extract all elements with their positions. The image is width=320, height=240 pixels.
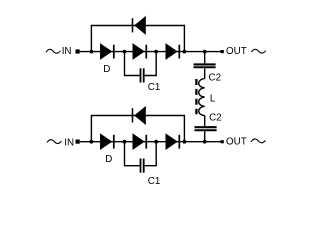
junction (bottom, bypass right) bbox=[183, 140, 187, 144]
capacitor C1 (top) left wire bbox=[125, 52, 140, 76]
svg-text:D: D bbox=[105, 154, 112, 165]
diode D (top, second) bbox=[133, 43, 147, 60]
diode bypass (bottom, pointing left) bbox=[133, 106, 146, 125]
inductor L coil bbox=[199, 79, 205, 116]
capacitor C1 (top) plates bbox=[140, 68, 142, 82]
svg-text:C1: C1 bbox=[148, 82, 161, 93]
svg-text:C2: C2 bbox=[209, 112, 222, 123]
terminal OUT (bottom) bbox=[221, 140, 224, 143]
terminal IN (bottom) bbox=[76, 140, 80, 144]
terminal OUT (top) bbox=[221, 50, 224, 53]
diode D (top, first) bbox=[100, 43, 114, 60]
capacitor C1 (bottom) left wire bbox=[125, 142, 140, 166]
wire L to C2 lower bbox=[204, 116, 206, 127]
AC symbol (top output) bbox=[251, 49, 265, 53]
diode bypass (top, pointing left) bbox=[133, 16, 146, 35]
diode D (bottom, first) bbox=[100, 133, 114, 150]
junction (top, bypass left) bbox=[90, 50, 94, 54]
junction (bottom, C1 left) bbox=[123, 140, 127, 144]
diode D (top, third) bbox=[166, 43, 180, 60]
wire main line (top) bbox=[80, 51, 221, 53]
capacitor C1 (bottom) plates bbox=[140, 159, 142, 173]
svg-text:C1: C1 bbox=[148, 176, 161, 187]
junction (top, C1 left) bbox=[123, 50, 127, 54]
wire bypass branch (bottom) bbox=[91, 116, 184, 142]
capacitor C2 (upper) plates bbox=[194, 63, 216, 65]
wire C2 lower lead bbox=[204, 131, 206, 142]
AC symbol (bottom output) bbox=[251, 139, 265, 143]
svg-text:OUT: OUT bbox=[226, 137, 247, 148]
junction (top, C1 right) bbox=[154, 50, 158, 54]
AC source symbol (top input) bbox=[46, 49, 60, 53]
capacitor C1 (top) right wire bbox=[145, 52, 157, 76]
wire C2 to L bbox=[204, 68, 206, 78]
wire C2 upper lead bbox=[204, 52, 206, 64]
capacitor C1 (bottom) right wire bbox=[145, 142, 157, 166]
svg-text:IN: IN bbox=[64, 137, 74, 148]
junction (bottom, C1 right) bbox=[154, 140, 158, 144]
svg-text:C2: C2 bbox=[209, 73, 222, 84]
junction (bottom, C2 tap) bbox=[203, 140, 207, 144]
svg-text:D: D bbox=[103, 64, 110, 75]
junction (top, C2 tap) bbox=[203, 50, 207, 54]
diode D (bottom, second) bbox=[133, 133, 147, 150]
wire main line (bottom) bbox=[80, 141, 221, 143]
diode D (bottom, third) bbox=[166, 133, 180, 150]
wire bypass branch (top) bbox=[91, 26, 184, 52]
junction (bottom, bypass left) bbox=[90, 140, 94, 144]
junction (top, bypass right) bbox=[183, 50, 187, 54]
svg-text:OUT: OUT bbox=[226, 46, 247, 57]
svg-text:L: L bbox=[210, 93, 216, 104]
svg-text:IN: IN bbox=[62, 46, 72, 57]
terminal IN (top) bbox=[76, 49, 80, 53]
AC source symbol (bottom input) bbox=[47, 140, 61, 144]
inductor L core (dashed) bbox=[195, 79, 197, 114]
capacitor C2 (lower) plates bbox=[195, 126, 217, 128]
